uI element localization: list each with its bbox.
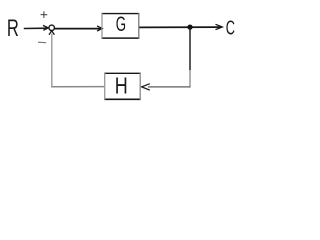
wire R to summing junction	[24, 27, 48, 29]
wire junction dot down (upper dark part)	[189, 28, 191, 70]
plus sign	[41, 11, 48, 18]
arrowhead to C	[216, 24, 223, 29]
svg-text:R: R	[7, 15, 19, 42]
arrowhead into block G	[97, 26, 102, 31]
svg-text:G: G	[116, 13, 126, 36]
junction dot	[187, 24, 192, 29]
wire block G to output node C	[139, 26, 221, 28]
wire summing junction to block G	[54, 28, 101, 30]
svg-text:H: H	[115, 73, 128, 99]
arrowhead into summing junction	[43, 25, 48, 30]
wire feedback right horizontal into H	[148, 86, 191, 88]
wire block H to feedback left corner	[51, 86, 104, 88]
arrowhead into summing junction from below	[49, 31, 54, 35]
block H box	[104, 73, 141, 100]
minus sign	[38, 41, 46, 44]
wire feedback left vertical up to summing junction	[51, 34, 53, 88]
wire junction dot down (lower gray part)	[189, 70, 191, 87]
arrowhead into block H	[142, 84, 150, 90]
block G box	[101, 13, 139, 39]
summing junction circle	[49, 25, 55, 31]
svg-text:C: C	[226, 16, 235, 39]
